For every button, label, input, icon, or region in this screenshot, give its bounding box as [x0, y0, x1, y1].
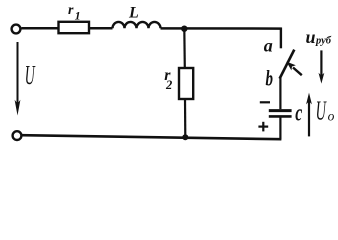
svg-text:b: b: [266, 65, 274, 90]
svg-text:U: U: [316, 96, 327, 126]
svg-text:o: o: [328, 109, 335, 124]
svg-text:a: a: [264, 36, 273, 56]
svg-text:L: L: [128, 5, 139, 22]
svg-text:c: c: [295, 100, 302, 126]
svg-text:U: U: [25, 60, 36, 90]
